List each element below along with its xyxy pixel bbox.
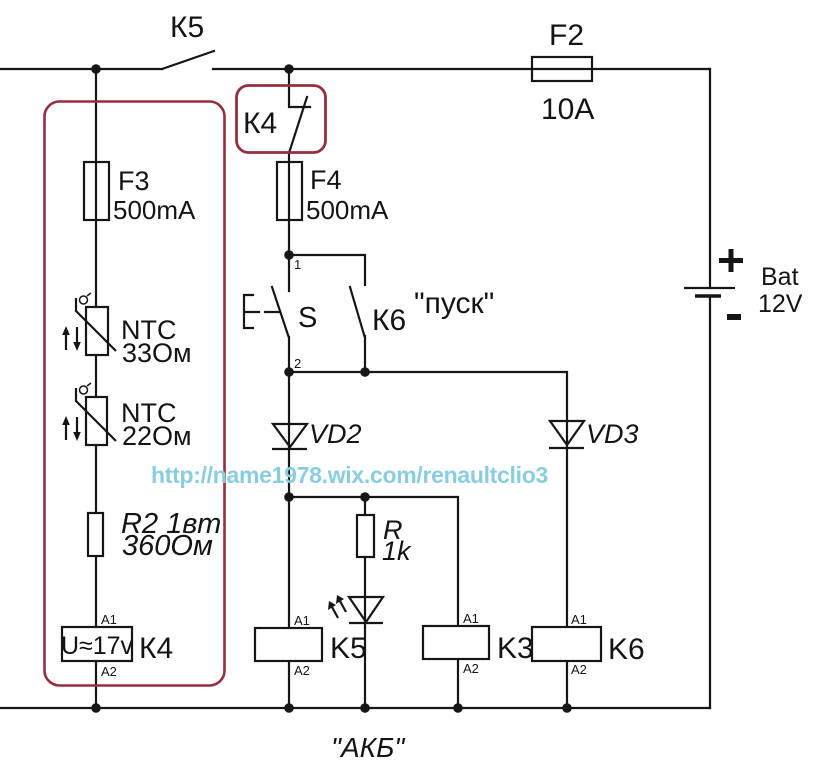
svg-text:10A: 10A [541,93,594,126]
svg-text:22Ом: 22Ом [122,421,192,451]
svg-text:12V: 12V [758,290,803,318]
svg-text:К4: К4 [243,107,277,140]
svg-text:A1: A1 [101,612,117,627]
svg-text:F4: F4 [310,165,342,195]
svg-text:500mA: 500mA [306,195,389,225]
svg-text:K5: K5 [330,632,367,665]
svg-text:A2: A2 [294,663,310,678]
svg-text:A1: A1 [571,612,587,627]
svg-text:U≈17v: U≈17v [61,632,134,660]
svg-text:1: 1 [294,257,301,272]
svg-text:К4: К4 [139,632,173,665]
svg-text:Bat: Bat [761,263,799,291]
svg-text:http://name1978.wix.com/renaul: http://name1978.wix.com/renaultclio3 [151,462,548,488]
svg-text:A1: A1 [463,611,479,626]
svg-text:K6: K6 [608,633,645,666]
svg-text:1k: 1k [382,536,412,566]
svg-text:VD2: VD2 [309,419,362,449]
svg-text:"АКБ": "АКБ" [331,732,405,763]
svg-text:F3: F3 [118,166,150,196]
svg-text:A2: A2 [571,662,587,677]
svg-text:500mA: 500mA [113,195,196,225]
svg-text:K3: K3 [497,632,534,665]
svg-text:S: S [298,302,317,334]
svg-text:A2: A2 [463,661,479,676]
svg-text:"пуск": "пуск" [414,287,494,320]
svg-text:F2: F2 [549,19,584,52]
svg-text:К6: К6 [372,304,406,337]
svg-text:A2: A2 [101,664,117,679]
svg-text:A1: A1 [294,613,310,628]
svg-text:360Ом: 360Ом [122,530,213,562]
svg-text:2: 2 [294,356,301,371]
svg-text:К5: К5 [170,11,204,44]
svg-text:VD3: VD3 [586,419,639,449]
svg-text:33Ом: 33Ом [122,338,192,368]
